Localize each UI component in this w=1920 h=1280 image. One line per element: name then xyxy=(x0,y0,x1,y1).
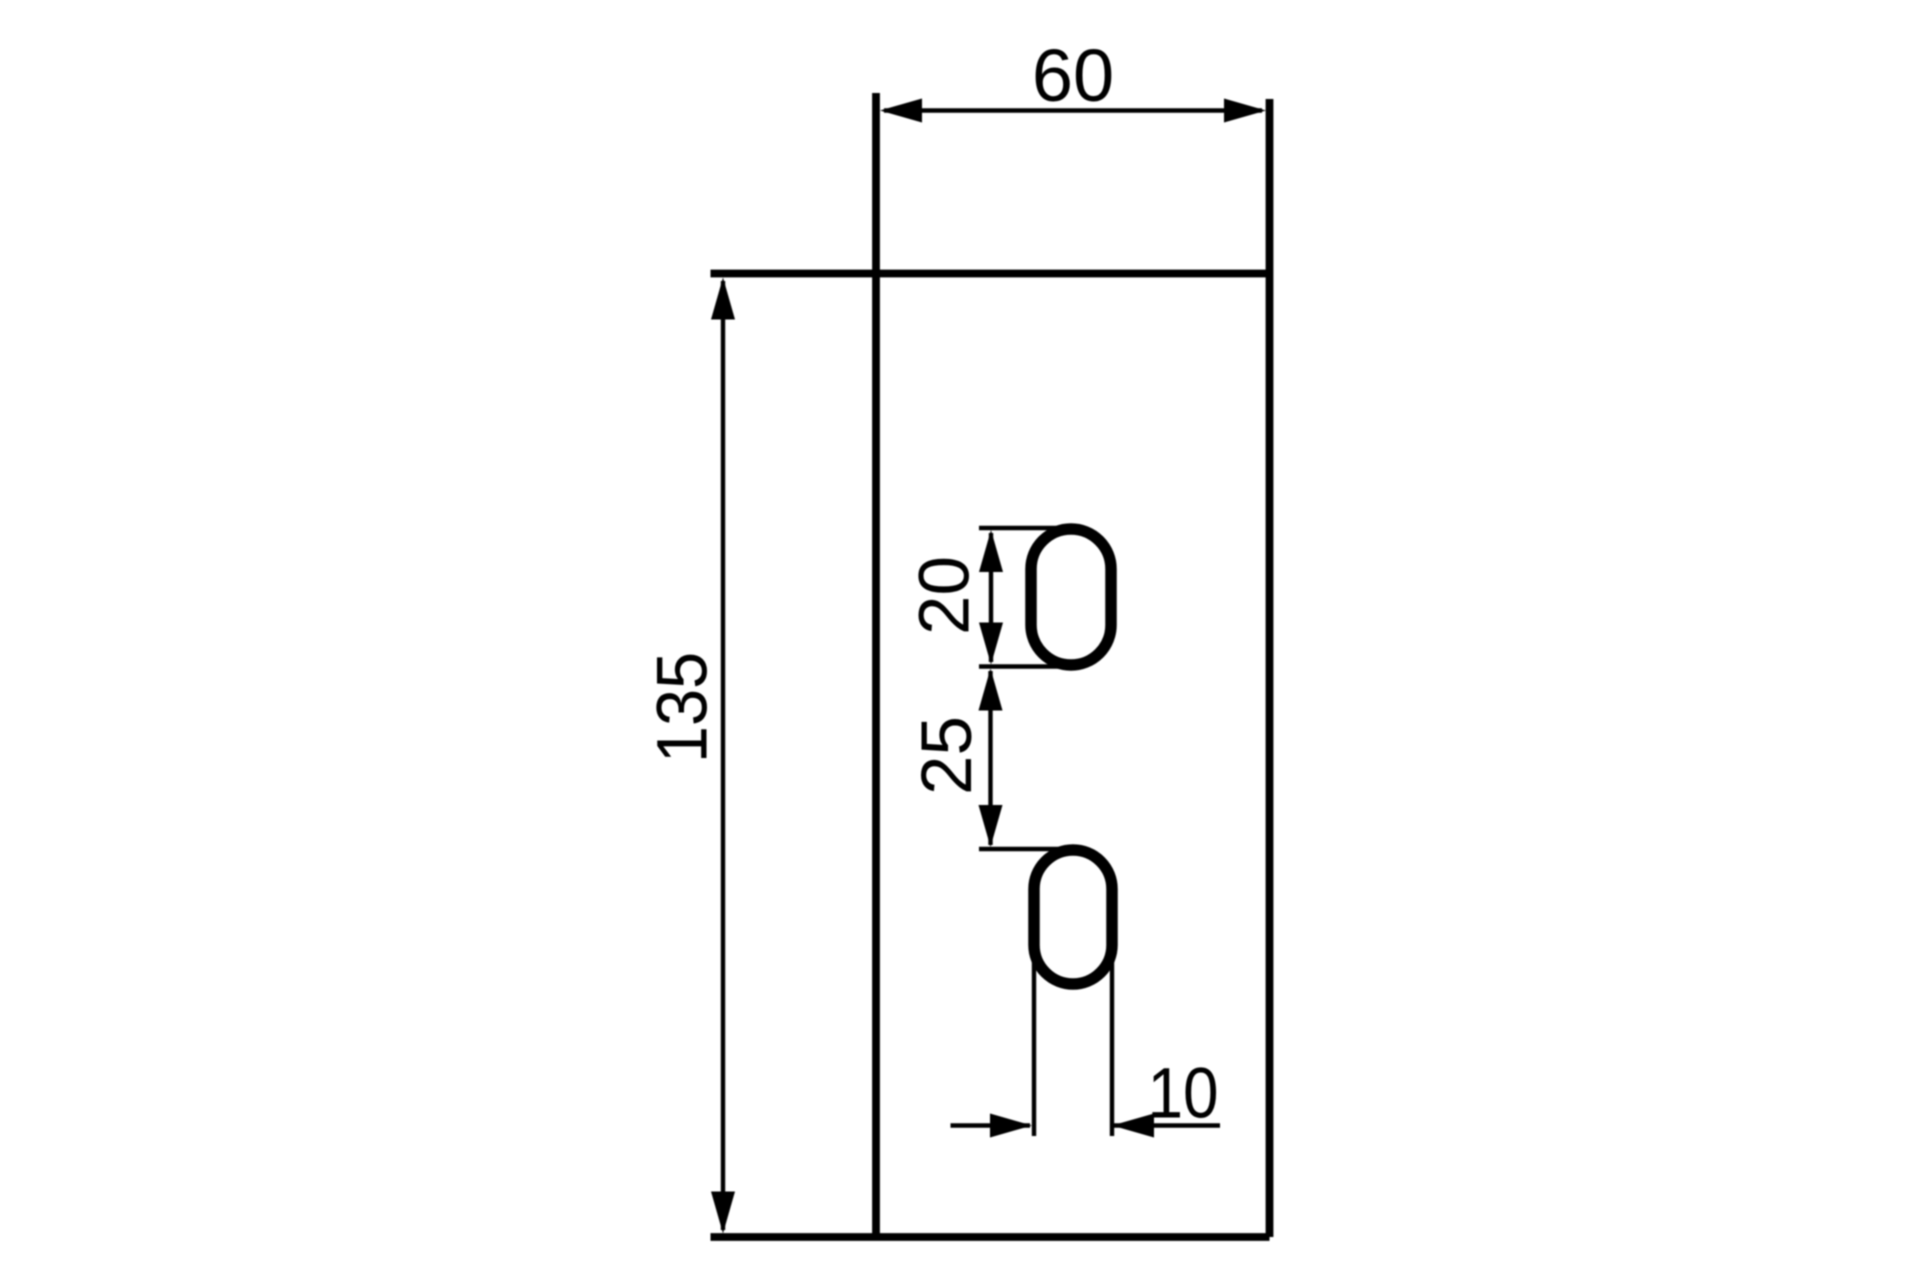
svg-text:135: 135 xyxy=(643,652,722,763)
svg-text:60: 60 xyxy=(1032,34,1114,117)
svg-text:25: 25 xyxy=(908,716,987,795)
svg-text:20: 20 xyxy=(906,556,985,635)
svg-text:10: 10 xyxy=(1147,1054,1218,1133)
